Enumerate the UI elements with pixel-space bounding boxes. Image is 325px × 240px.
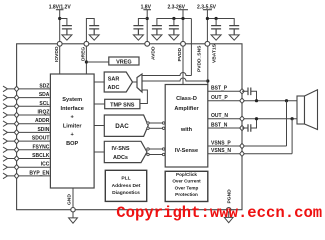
capacitor C2 bbox=[89, 26, 99, 35]
svg-text:SCL: SCL bbox=[39, 101, 49, 107]
ground C2 bbox=[89, 35, 99, 40]
ground C4 bbox=[152, 35, 162, 40]
wire DREG to VREG bbox=[86, 61, 108, 63]
wire IV out P bbox=[148, 148, 164, 150]
ground C3 bbox=[133, 35, 143, 40]
svg-text:System: System bbox=[62, 97, 82, 103]
node PVDD bbox=[181, 41, 186, 46]
wire to C5 bbox=[173, 19, 175, 26]
ground GND bbox=[69, 218, 78, 223]
wire IOVDD internal bbox=[59, 46, 61, 74]
block DAC bbox=[104, 115, 148, 136]
svg-text:Over Temp: Over Temp bbox=[175, 185, 199, 190]
wire to C6 bbox=[215, 19, 217, 26]
svg-text:SDA: SDA bbox=[39, 92, 50, 98]
node IOVDD bbox=[57, 41, 62, 46]
svg-text:Diagnostics: Diagnostics bbox=[112, 190, 140, 196]
junction dot bbox=[172, 17, 175, 20]
wire VBAT1S supply bbox=[206, 10, 208, 44]
wire PVDD supply bbox=[182, 10, 184, 44]
svg-text:SDZ: SDZ bbox=[39, 83, 49, 89]
svg-text:ICC: ICC bbox=[41, 162, 50, 168]
left pin diamonds bbox=[14, 86, 19, 178]
node AVDD bbox=[145, 41, 150, 46]
svg-text:BOP: BOP bbox=[66, 141, 78, 147]
right pin wires bbox=[208, 91, 297, 153]
wire VSNS_N tap bbox=[291, 119, 293, 154]
wire PVDD internal bbox=[182, 46, 184, 85]
svg-text:SDIN: SDIN bbox=[37, 127, 49, 133]
svg-text:PVDD: PVDD bbox=[177, 47, 183, 61]
svg-text:TMP SNS: TMP SNS bbox=[110, 102, 135, 108]
junction dot bbox=[146, 17, 149, 20]
capacitor C3 bbox=[133, 26, 143, 35]
rail bar 1.8V/1.2V bbox=[56, 9, 64, 11]
speaker LS1 bbox=[297, 96, 305, 124]
wire DREG to cap bbox=[86, 19, 94, 44]
wire BST_N bbox=[208, 127, 242, 129]
svg-text:SDOUT: SDOUT bbox=[32, 136, 50, 142]
wire System to SAR bbox=[94, 81, 104, 83]
node DREG bbox=[84, 41, 89, 46]
wire VSNS_N bbox=[208, 153, 292, 155]
node VBAT1S bbox=[205, 41, 210, 46]
ground C6 bbox=[211, 35, 221, 40]
svg-text:IV-SNS: IV-SNS bbox=[111, 146, 129, 152]
mux MUX1 bbox=[137, 74, 142, 92]
block System Interface bbox=[50, 74, 94, 188]
svg-text:Pop/Click: Pop/Click bbox=[176, 172, 197, 177]
rail bar 2.3-26V bbox=[178, 9, 188, 11]
svg-text:AVDD: AVDD bbox=[150, 46, 156, 60]
svg-text:Protection: Protection bbox=[175, 192, 198, 197]
junction dot bbox=[181, 17, 184, 20]
wire OUT_P bbox=[208, 100, 297, 102]
svg-text:BYP_EN: BYP_EN bbox=[29, 170, 49, 176]
svg-text:BST_N: BST_N bbox=[211, 122, 228, 128]
svg-text:Address Det: Address Det bbox=[112, 183, 141, 189]
svg-text:PLL: PLL bbox=[121, 176, 130, 182]
svg-text:Class-D: Class-D bbox=[176, 96, 197, 102]
capacitor C9 (BST_N bootstrap) bbox=[248, 124, 251, 132]
wire IV out N bbox=[148, 154, 164, 156]
junction dot bbox=[58, 17, 61, 20]
sense wire PVDD_SNS to mux (hop over PVDD) bbox=[142, 73, 191, 76]
wire PVDD_SNS internal bbox=[190, 19, 192, 76]
left pins bbox=[3, 86, 50, 179]
svg-text:ADDR: ADDR bbox=[35, 118, 50, 124]
svg-text:Over Current: Over Current bbox=[172, 179, 201, 184]
left pin labels bbox=[29, 83, 49, 176]
svg-text:Interface: Interface bbox=[61, 106, 84, 112]
svg-text:DREG: DREG bbox=[81, 47, 87, 61]
wire VSNS_P bbox=[208, 145, 287, 147]
sense wire VBAT to mux (hop over PVDD) bbox=[142, 78, 208, 81]
svg-text:VBAT1S: VBAT1S bbox=[212, 43, 218, 63]
wire BST_P bbox=[208, 90, 242, 92]
svg-text:IOVDD: IOVDD bbox=[54, 46, 60, 62]
wire AVDD supply bbox=[146, 10, 148, 44]
wire SAR to mux bbox=[133, 81, 138, 83]
block IV-SNS ADCs bbox=[104, 141, 147, 162]
svg-text:VSNS_P: VSNS_P bbox=[211, 140, 231, 146]
svg-text:ADC: ADC bbox=[108, 85, 120, 91]
junction dot VSNS_N tap bbox=[291, 117, 294, 120]
wire to C1 bbox=[60, 19, 67, 26]
wire to C3 bbox=[138, 19, 147, 26]
svg-text:Limiter: Limiter bbox=[63, 123, 82, 129]
right pin labels bbox=[211, 86, 231, 154]
capacitor C5 bbox=[169, 26, 179, 35]
capacitor C1 bbox=[62, 26, 72, 35]
rail wire PVDD bbox=[157, 19, 192, 26]
capacitor C8 (BST_P bootstrap) bbox=[248, 88, 251, 96]
wire DAC out N bbox=[148, 127, 164, 129]
wire GND bbox=[72, 188, 74, 210]
junction dot VSNS_P tap bbox=[285, 99, 288, 102]
capacitor C6 bbox=[211, 26, 221, 35]
wire TMP SNS to mux bbox=[140, 90, 148, 104]
svg-text:Copyright:www.eccn.com: Copyright:www.eccn.com bbox=[116, 204, 322, 222]
svg-text:VSNS_N: VSNS_N bbox=[211, 148, 231, 154]
svg-text:OUT_P: OUT_P bbox=[211, 95, 228, 101]
rail bar 1.8V bbox=[143, 9, 151, 11]
svg-text:IV-Sense: IV-Sense bbox=[175, 148, 198, 154]
svg-text:BST_P: BST_P bbox=[211, 86, 228, 92]
ground C1 bbox=[62, 35, 72, 40]
ground C7 bbox=[229, 35, 239, 40]
wire DAC out P bbox=[148, 122, 164, 124]
svg-text:VREG: VREG bbox=[116, 59, 132, 65]
chip boundary U1 bbox=[17, 44, 242, 210]
rail bar 2.3-5.5V bbox=[203, 9, 212, 11]
rail wire VBAT1S bbox=[207, 19, 234, 26]
wire VSNS_P tap bbox=[286, 101, 288, 146]
block VREG bbox=[109, 57, 139, 65]
svg-text:with: with bbox=[180, 127, 193, 133]
svg-text:FSYNC: FSYNC bbox=[32, 144, 49, 150]
ground C5 bbox=[169, 35, 179, 40]
pin GND bbox=[71, 208, 75, 212]
capacitor C7 bbox=[229, 26, 239, 35]
block PLL Address Det Diagnostics bbox=[105, 170, 146, 201]
ground PGND bbox=[224, 217, 233, 222]
right pin diamonds bbox=[240, 89, 245, 157]
svg-text:PGND: PGND bbox=[227, 189, 233, 204]
svg-text:OUT_N: OUT_N bbox=[211, 113, 228, 119]
wire System to TMP SNS bbox=[94, 103, 105, 105]
svg-text:GND: GND bbox=[67, 194, 73, 205]
svg-text:SBCLK: SBCLK bbox=[32, 153, 50, 159]
wire DREG internal bbox=[85, 46, 87, 74]
wire OUT_N bbox=[208, 118, 297, 120]
wire System to DAC bbox=[94, 125, 104, 127]
block SAR ADC bbox=[104, 72, 132, 92]
svg-text:ADCs: ADCs bbox=[113, 155, 128, 161]
block Class-D Amplifier bbox=[165, 85, 208, 168]
svg-text:IRQZ: IRQZ bbox=[37, 110, 49, 116]
wire IOVDD supply bbox=[59, 10, 61, 44]
svg-text:PVDD_SNS: PVDD_SNS bbox=[197, 45, 203, 72]
junction dot bbox=[206, 17, 209, 20]
wire VBAT1S internal bbox=[207, 46, 209, 85]
capacitor C4 bbox=[152, 26, 162, 35]
block TMP SNS bbox=[105, 99, 140, 108]
svg-text:DAC: DAC bbox=[115, 123, 129, 130]
junction dot VBAT sense bbox=[206, 79, 209, 82]
svg-text:SAR: SAR bbox=[108, 76, 120, 82]
block Pop/Click Protection bbox=[165, 171, 208, 201]
wire System to IV-SNS bbox=[94, 151, 104, 153]
junction dot DREG-VREG bbox=[85, 60, 88, 63]
junction dot bbox=[215, 17, 218, 20]
svg-text:Amplifier: Amplifier bbox=[174, 106, 199, 112]
